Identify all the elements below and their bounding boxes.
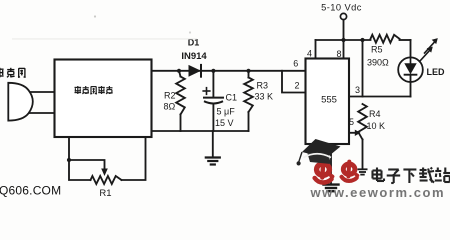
svg-text:8Ω: 8Ω: [164, 102, 176, 112]
capacitor C1: [204, 71, 223, 131]
svg-text:R1: R1: [99, 188, 111, 198]
label C1: [226, 93, 238, 103]
svg-text:15 V: 15 V: [215, 118, 234, 128]
svg-text:33 K: 33 K: [255, 92, 274, 102]
svg-text:8: 8: [336, 49, 341, 59]
LED light arrows: [420, 38, 438, 61]
resistor R2: [176, 71, 185, 131]
label 15V: [215, 118, 234, 128]
svg-text:5 μF: 5 μF: [217, 107, 236, 117]
ground 555: [324, 144, 339, 191]
label microphone (CJK): [0, 68, 26, 78]
IC 555 timer U1: [306, 59, 350, 145]
wire pin2 branch: [282, 71, 306, 93]
watermark bug2: [342, 162, 358, 181]
label pin8: [336, 49, 341, 59]
node R4 branch: [360, 38, 364, 42]
svg-text:5: 5: [349, 117, 354, 127]
svg-text:5-10 Vdc: 5-10 Vdc: [321, 3, 362, 13]
label R4: [369, 109, 381, 119]
svg-text:6: 6: [293, 59, 298, 69]
node C1-top: [211, 69, 215, 73]
svg-text:R3: R3: [257, 81, 269, 91]
Vcc terminal: [340, 13, 346, 40]
label 8ohm: [164, 102, 176, 112]
resistor R4: [358, 104, 367, 169]
microphone MIC: [8, 83, 33, 121]
label 10K: [367, 121, 386, 131]
label R3: [257, 81, 269, 91]
svg-text:R4: R4: [369, 109, 381, 119]
svg-text:555: 555: [321, 95, 337, 106]
watermark graduation cap: [297, 139, 341, 165]
wire R1 loop: [69, 137, 146, 180]
audio amplifier block: [55, 60, 152, 138]
watermark Q606.COM: [0, 184, 61, 198]
wire pin3: [349, 96, 411, 98]
resistor R3: [244, 71, 253, 131]
wire pin3-R4 vertical: [362, 40, 364, 97]
watermark bug1: [315, 161, 333, 183]
wire pin8 stub: [343, 40, 345, 59]
ground R4: [358, 169, 366, 174]
C1 polarity +: [203, 88, 210, 95]
svg-text:390Ω: 390Ω: [367, 58, 389, 68]
svg-text:R2: R2: [164, 91, 176, 101]
label LED: [427, 67, 446, 77]
R1 wiper: [67, 158, 108, 176]
watermark dianzi xiazaizhan (CJK): [373, 168, 450, 184]
wire: [152, 70, 306, 72]
resistor R5: [371, 35, 400, 43]
label audio amplifier (CJK): [75, 86, 113, 94]
wire: [27, 92, 55, 113]
node R3-top: [246, 69, 250, 73]
decorative: [12, 15, 197, 39]
label pin3: [355, 85, 360, 95]
label 555: [321, 95, 337, 106]
label R2: [164, 91, 176, 101]
R4 wiper pin5: [349, 130, 361, 136]
resistor R1: [91, 176, 122, 184]
label R1: [99, 188, 111, 199]
wire pin4 stub: [315, 40, 317, 59]
label pin6: [293, 59, 298, 69]
LED DS1: [398, 40, 423, 97]
wire Vcc rail: [316, 39, 411, 41]
wire: [152, 130, 249, 132]
ground: [206, 131, 220, 165]
watermark www.eeworm.com: [310, 185, 446, 200]
svg-text:10 K: 10 K: [367, 121, 386, 131]
node R2-top: [177, 69, 181, 73]
label D1: [188, 38, 200, 48]
label R5: [371, 45, 383, 55]
svg-text:LED: LED: [427, 67, 446, 77]
label pin4: [307, 49, 312, 59]
svg-text:C1: C1: [226, 93, 238, 103]
svg-text:www.eeworm.com: www.eeworm.com: [310, 185, 446, 198]
label pin5: [349, 117, 354, 127]
svg-text:3: 3: [355, 85, 360, 95]
label 33K: [255, 92, 274, 102]
diode D1: [189, 65, 202, 77]
label 5-10 Vdc: [321, 3, 362, 13]
node Vcc: [341, 38, 345, 42]
label IN914: [181, 51, 207, 62]
svg-text:Q606.COM: Q606.COM: [0, 184, 61, 198]
svg-text:4: 4: [307, 49, 312, 59]
label pin2: [294, 81, 299, 91]
svg-text:R5: R5: [371, 45, 383, 55]
label 390ohm: [367, 58, 389, 68]
svg-text:2: 2: [294, 81, 299, 91]
label 5uF: [217, 107, 236, 117]
svg-text:IN914: IN914: [181, 51, 207, 62]
